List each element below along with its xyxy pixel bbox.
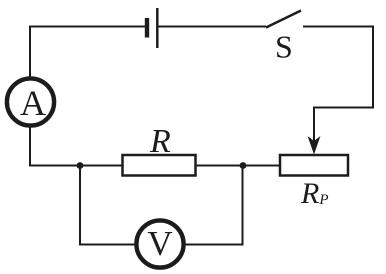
svg-text:V: V xyxy=(147,224,172,263)
wire right vertical xyxy=(372,26,374,108)
svg-text:S: S xyxy=(275,29,293,65)
switch S blade xyxy=(266,11,301,28)
node left junction dot xyxy=(77,162,84,169)
resistor R box xyxy=(123,155,196,176)
rheostat RP box xyxy=(280,155,348,176)
wire battery to switch xyxy=(159,26,267,28)
battery (cell) xyxy=(147,8,157,48)
wire left vertical below ammeter xyxy=(29,127,31,166)
wire voltmeter branch left vertical xyxy=(79,166,81,245)
node right junction dot xyxy=(240,162,247,169)
wire switch to top-right corner xyxy=(303,26,373,28)
wire resistor to right node xyxy=(196,165,244,167)
svg-text:A: A xyxy=(20,83,46,123)
ammeter U1 circle xyxy=(7,78,54,125)
wire right node to rheostat xyxy=(243,165,280,167)
wire voltmeter branch bottom-left xyxy=(79,244,135,246)
wire voltmeter branch bottom-right xyxy=(185,244,244,246)
rheostat wiper arrowhead xyxy=(309,138,320,154)
wire jog to rheostat wiper xyxy=(314,107,374,109)
wire wiper vertical xyxy=(313,107,315,143)
voltmeter U2 circle xyxy=(136,220,183,267)
wire top-left horizontal xyxy=(30,26,145,28)
wire voltmeter branch right vertical xyxy=(242,166,244,246)
wire middle left segment xyxy=(29,165,123,167)
svg-text:RP: RP xyxy=(300,177,329,210)
svg-text:R: R xyxy=(149,123,171,160)
wire left vertical above ammeter xyxy=(29,26,31,78)
